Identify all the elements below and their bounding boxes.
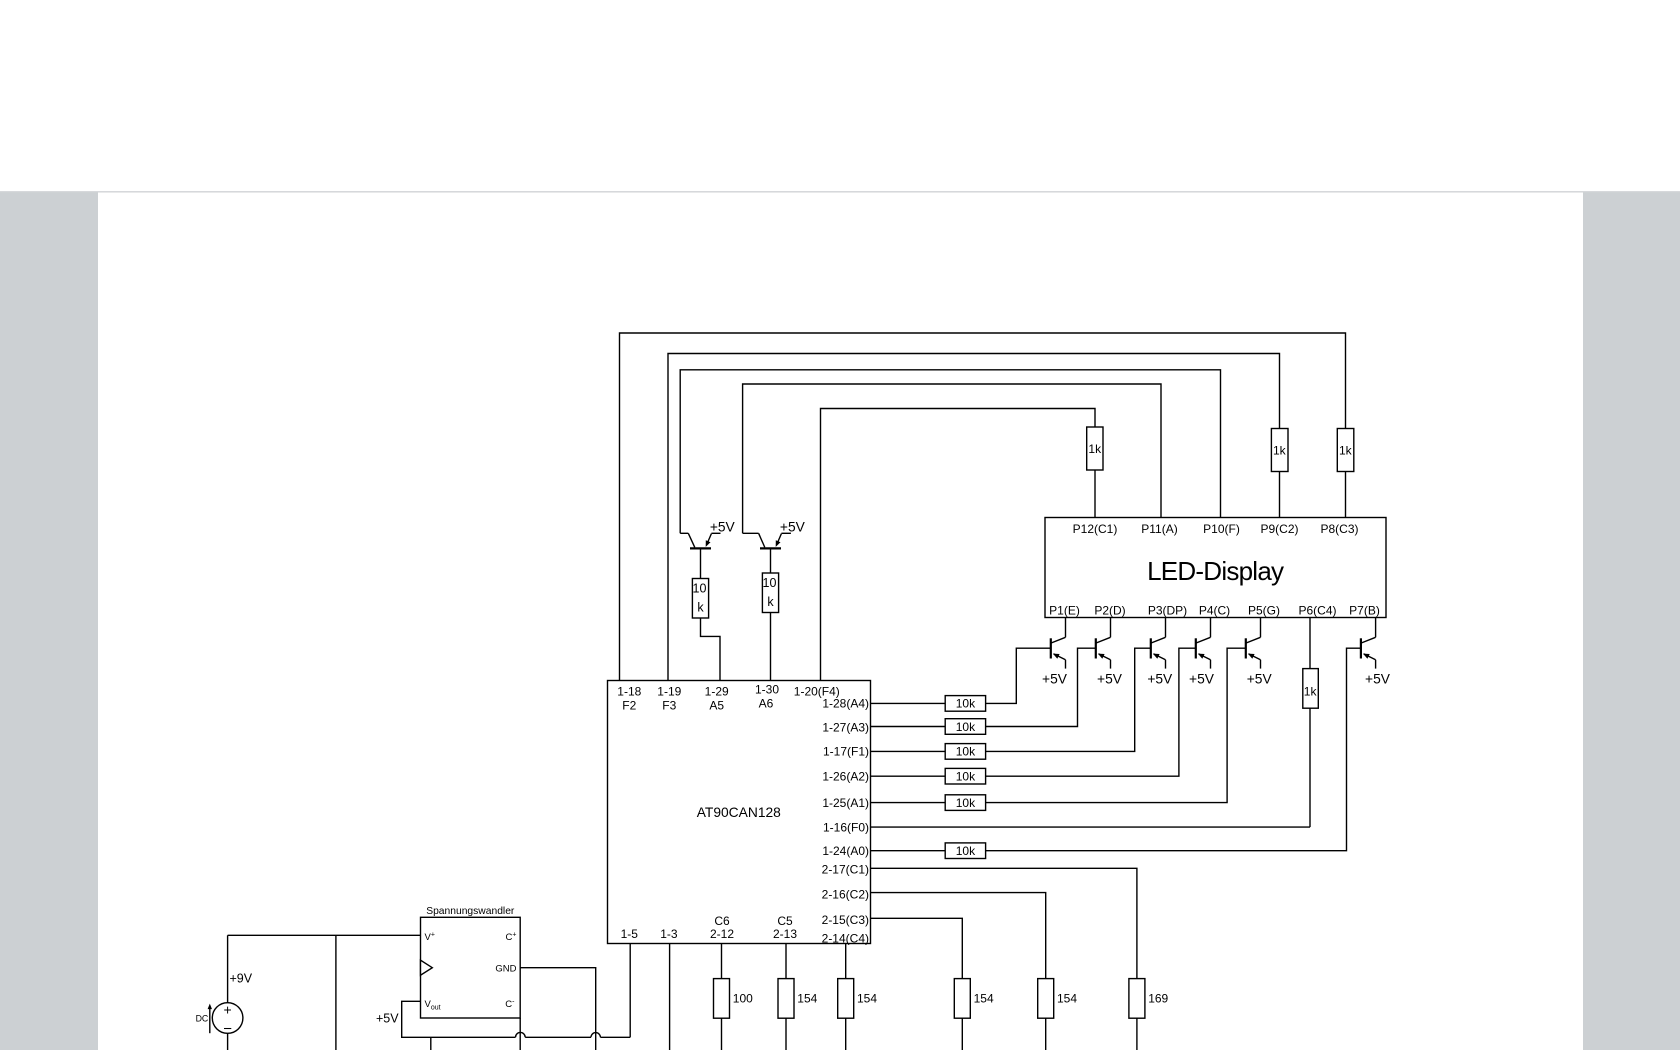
svg-text:+5V: +5V bbox=[710, 519, 736, 534]
wire junction down from +5V rail bbox=[430, 1037, 432, 1050]
svg-text:154: 154 bbox=[1057, 992, 1077, 1006]
wire AT90 pin 1-17(F1) to R10 bbox=[871, 750, 946, 752]
svg-text:1-24(A0): 1-24(A0) bbox=[822, 844, 869, 858]
svg-text:+5V: +5V bbox=[1189, 672, 1215, 687]
wire R8 to Q3 base bbox=[986, 648, 1051, 703]
resistor R9 10k bbox=[945, 719, 985, 735]
svg-text:1-28(A4): 1-28(A4) bbox=[822, 697, 869, 711]
svg-text:+5V: +5V bbox=[780, 519, 806, 534]
resistor R14 10k bbox=[945, 843, 985, 859]
svg-text:1-25(A1): 1-25(A1) bbox=[822, 796, 869, 810]
svg-text:P7(B): P7(B) bbox=[1349, 604, 1380, 618]
LED-Display module bbox=[1045, 518, 1386, 618]
svg-text:10k: 10k bbox=[956, 697, 976, 711]
svg-text:C6: C6 bbox=[714, 914, 730, 928]
svg-text:10k: 10k bbox=[956, 844, 976, 858]
svg-text:2-15(C3): 2-15(C3) bbox=[822, 913, 869, 927]
resistor R5 1k bbox=[1337, 429, 1354, 472]
svg-text:154: 154 bbox=[797, 992, 817, 1006]
svg-text:154: 154 bbox=[974, 992, 994, 1006]
svg-text:2-13: 2-13 bbox=[773, 927, 797, 941]
wire AT90 pin 1-25(A1) to R12 bbox=[871, 802, 946, 804]
svg-text:P4(C): P4(C) bbox=[1199, 604, 1230, 618]
svg-text:1-26(A2): 1-26(A2) bbox=[822, 770, 869, 784]
svg-text:GND: GND bbox=[495, 964, 516, 975]
IC U2 Spannungswandler bbox=[421, 906, 521, 1018]
svg-text:1-30: 1-30 bbox=[755, 683, 779, 697]
transistor Q5 PNP bbox=[1151, 618, 1166, 669]
transistor Q3 PNP bbox=[1051, 618, 1066, 669]
transistor Q7 PNP bbox=[1246, 618, 1261, 669]
resistor R15 (pin 2-12/C6) 100 bbox=[714, 979, 730, 1019]
wire Q1 base to R6 bbox=[700, 548, 702, 578]
svg-text:154: 154 bbox=[857, 992, 877, 1006]
resistor R11 10k bbox=[945, 768, 985, 784]
wire AT90 pin 2-17(C1) down to R20 bbox=[871, 868, 1137, 978]
wire R6 to AT90 pin 1-29 bbox=[701, 618, 721, 681]
svg-text:LED-Display: LED-Display bbox=[1147, 556, 1284, 586]
wire below R20 bbox=[1136, 1018, 1138, 1050]
resistor R20 169 bbox=[1129, 979, 1145, 1019]
voltage source V1 DC bbox=[212, 1002, 243, 1038]
svg-text:P6(C4): P6(C4) bbox=[1298, 604, 1336, 618]
wire AT90 pin 1-27(A3) to R9 bbox=[871, 726, 946, 728]
wire below R18 bbox=[961, 1018, 963, 1050]
svg-text:AT90CAN128: AT90CAN128 bbox=[697, 805, 781, 820]
wire LED pin P6(C4) to R13 bbox=[1309, 618, 1311, 669]
resistor R12 10k bbox=[945, 795, 985, 811]
svg-text:10: 10 bbox=[693, 581, 707, 595]
resistor R4 1k bbox=[1271, 429, 1288, 472]
wire junction down from V+ rail bbox=[335, 935, 337, 1050]
transistor Q1 PNP bbox=[680, 533, 720, 548]
wire R14 to Q8 base bbox=[986, 648, 1361, 851]
svg-text:k: k bbox=[767, 595, 774, 609]
wire R9 to Q4 base bbox=[986, 648, 1096, 726]
svg-text:+9V: +9V bbox=[230, 972, 253, 986]
wire AT90 pin 1-16(F0) to R13 bottom bbox=[871, 826, 1311, 828]
wire below R16 (pin 2-13/C5) bbox=[785, 1018, 787, 1050]
svg-text:1-19: 1-19 bbox=[657, 684, 681, 698]
svg-text:1-29: 1-29 bbox=[705, 684, 729, 698]
svg-text:10k: 10k bbox=[956, 745, 976, 759]
wire AT90 pin 1-26(A2) to R11 bbox=[871, 775, 946, 777]
wire to R17 (pin 2-14/C4) bbox=[845, 944, 847, 979]
svg-text:1k: 1k bbox=[1304, 685, 1318, 699]
arrow at source bbox=[209, 1007, 211, 1034]
svg-text:1k: 1k bbox=[1088, 442, 1102, 456]
svg-text:F3: F3 bbox=[662, 698, 676, 712]
svg-text:P5(G): P5(G) bbox=[1248, 604, 1280, 618]
svg-text:P11(A): P11(A) bbox=[1141, 522, 1177, 536]
svg-text:+5V: +5V bbox=[1247, 672, 1273, 687]
wire source to +9V rail bbox=[227, 935, 229, 1003]
wire net F3: AT90 pin 1-19 up and over to R4 bbox=[668, 354, 1280, 681]
svg-text:169: 169 bbox=[1148, 992, 1168, 1006]
wire R13 down to F0 net bbox=[1309, 708, 1311, 827]
wire R5 to LED pin P8(C3) bbox=[1345, 472, 1347, 518]
resistor R17 (pin 2-14/C4) 154 bbox=[838, 979, 854, 1019]
svg-text:+5V: +5V bbox=[1365, 672, 1391, 687]
svg-text:A5: A5 bbox=[709, 698, 724, 712]
svg-text:1-3: 1-3 bbox=[660, 927, 678, 941]
svg-text:+: + bbox=[224, 1002, 232, 1018]
svg-text:1-27(A3): 1-27(A3) bbox=[822, 720, 869, 734]
resistor R13 1k bbox=[1303, 669, 1319, 709]
svg-text:A6: A6 bbox=[759, 697, 774, 711]
resistor R7 10k bbox=[762, 573, 778, 613]
wire C- from U2 down bbox=[519, 1018, 521, 1050]
svg-text:P1(E): P1(E) bbox=[1049, 604, 1080, 618]
svg-text:1k: 1k bbox=[1339, 444, 1353, 458]
wire R12 to Q7 base bbox=[986, 648, 1246, 802]
wire AT90 pin 1-28(A4) to R8 bbox=[871, 702, 946, 704]
wire R7 to AT90 pin 1-30 bbox=[770, 613, 772, 681]
svg-text:P9(C2): P9(C2) bbox=[1260, 522, 1298, 536]
svg-text:1-5: 1-5 bbox=[621, 927, 639, 941]
wire net F4: AT90 pin 1-20 up and over to R3 bbox=[821, 409, 1096, 681]
wire R11 to Q6 base bbox=[986, 648, 1196, 776]
svg-text:1-16(F0): 1-16(F0) bbox=[823, 820, 869, 834]
wire to R16 (pin 2-13/C5) bbox=[785, 944, 787, 979]
svg-text:+5V: +5V bbox=[1097, 672, 1123, 687]
wire AT90 pin 1-5 to +5V rail bbox=[629, 944, 631, 1038]
wire AT90 pin 1-3 down bbox=[669, 944, 671, 1050]
svg-text:2-14(C4): 2-14(C4) bbox=[822, 932, 869, 946]
wire below R19 bbox=[1045, 1018, 1047, 1050]
resistor R19 154 bbox=[1038, 979, 1054, 1019]
wire AT90 pin 2-15(C3) down to R18 bbox=[871, 918, 963, 978]
wire Q2 base to R7 bbox=[770, 548, 772, 573]
svg-text:1-18: 1-18 bbox=[617, 684, 641, 698]
resistor R6 10k bbox=[692, 579, 708, 619]
resistor R3 1k bbox=[1087, 427, 1103, 470]
resistor R10 10k bbox=[945, 744, 985, 760]
svg-text:10k: 10k bbox=[956, 720, 976, 734]
wire Q2 collector to LED pin P11(A) bbox=[743, 384, 1161, 533]
svg-text:10k: 10k bbox=[956, 796, 976, 810]
svg-text:DC: DC bbox=[196, 1013, 209, 1023]
svg-text:+5V: +5V bbox=[376, 1011, 399, 1025]
oscillator symbol on U2 bbox=[421, 960, 433, 975]
IC U1 AT90CAN128 bbox=[608, 681, 871, 946]
wire AT90 pin 1-24(A0) to R14 bbox=[871, 850, 946, 852]
svg-text:P12(C1): P12(C1) bbox=[1073, 522, 1118, 536]
wire below R15 (pin 2-12/C6) bbox=[721, 1018, 723, 1050]
svg-text:2-12: 2-12 bbox=[710, 927, 734, 941]
svg-text:10k: 10k bbox=[956, 770, 976, 784]
wire Q1 collector to LED pin P10(F) bbox=[680, 370, 1220, 534]
svg-text:C5: C5 bbox=[777, 914, 793, 928]
wire R4 to LED pin P9(C2) bbox=[1279, 472, 1281, 518]
wire R3 to LED pin P12(C1) bbox=[1094, 470, 1096, 518]
svg-text:2-16(C2): 2-16(C2) bbox=[822, 888, 869, 902]
transistor Q4 PNP bbox=[1096, 618, 1111, 669]
svg-text:2-17(C1): 2-17(C1) bbox=[822, 863, 869, 877]
wire net F2: AT90 pin 1-18 up and over to R5 bbox=[620, 333, 1346, 681]
svg-text:+5V: +5V bbox=[1147, 672, 1173, 687]
svg-text:10: 10 bbox=[763, 576, 777, 590]
wire +5V rail: Vout to pin 1-5 with crossovers bbox=[402, 1001, 516, 1037]
svg-text:+5V: +5V bbox=[1042, 672, 1068, 687]
svg-text:1k: 1k bbox=[1273, 444, 1287, 458]
wire GND from U2 down bbox=[520, 968, 596, 1050]
transistor Q8 PNP bbox=[1361, 618, 1376, 669]
svg-text:100: 100 bbox=[733, 992, 753, 1006]
wire below source bbox=[227, 1033, 229, 1050]
wire to R15 (pin 2-12/C6) bbox=[721, 944, 723, 979]
resistor R18 154 bbox=[954, 979, 970, 1019]
svg-text:F2: F2 bbox=[622, 698, 636, 712]
wire AT90 pin 2-16(C2) down to R19 bbox=[871, 893, 1046, 979]
wire V+ rail from U2 to source bbox=[228, 934, 421, 936]
svg-text:P3(DP): P3(DP) bbox=[1148, 604, 1187, 618]
svg-text:P10(F): P10(F) bbox=[1203, 522, 1240, 536]
resistor R16 (pin 2-13/C5) 154 bbox=[778, 979, 794, 1019]
transistor Q2 PNP bbox=[743, 533, 791, 548]
svg-text:k: k bbox=[697, 600, 704, 614]
transistor Q6 PNP bbox=[1196, 618, 1211, 669]
svg-text:P2(D): P2(D) bbox=[1094, 604, 1125, 618]
svg-text:1-17(F1): 1-17(F1) bbox=[823, 745, 869, 759]
svg-text:P8(C3): P8(C3) bbox=[1320, 522, 1358, 536]
wire below R17 (pin 2-14/C4) bbox=[845, 1018, 847, 1050]
wire R10 to Q5 base bbox=[986, 648, 1151, 751]
svg-text:Spannungswandler: Spannungswandler bbox=[426, 906, 515, 917]
resistor R8 10k bbox=[945, 696, 985, 712]
